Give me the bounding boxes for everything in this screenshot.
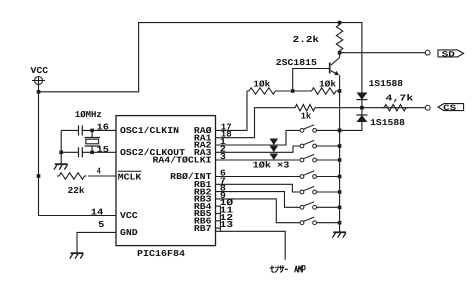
label PIC16F84 [137, 249, 186, 259]
label 1S1588 bottom [370, 118, 405, 128]
node VCC junction [37, 90, 41, 94]
pin 5 label [98, 220, 104, 230]
wire RB1 to SW5 [216, 184, 301, 192]
VCC symbol [32, 77, 45, 92]
wire D2 to bus [340, 122, 362, 130]
switch SW3 [300, 158, 304, 162]
svg-text:1Øk: 1Øk [253, 79, 271, 89]
svg-text:GND: GND [120, 228, 138, 238]
svg-text:5: 5 [98, 220, 104, 230]
wire 10kA-10kB [278, 90, 310, 92]
ground ic [70, 253, 84, 258]
resistor R3 10k [247, 88, 278, 94]
wire top to diodes [340, 23, 362, 93]
capacitor C2 [61, 147, 82, 157]
node 22k junction [37, 174, 41, 178]
wire RB2 to SW6 [216, 192, 301, 208]
switch SW4 [300, 175, 304, 179]
node OSC2-crystal [90, 151, 94, 155]
label 2SC1815 [276, 58, 317, 68]
label 10k x3 [253, 161, 290, 171]
pin 14 label [91, 207, 104, 217]
wire RA3 to SW2 [216, 146, 301, 152]
wire D1 to CS [361, 100, 363, 108]
arrow pullup RA3 [270, 146, 278, 153]
svg-text:22k: 22k [68, 186, 85, 196]
wire VCC rail top [39, 23, 340, 92]
crystal X1 10MHz [85, 130, 101, 152]
svg-text:PIC16F84: PIC16F84 [137, 249, 186, 259]
wire OSC2 [82, 151, 116, 153]
svg-text:CS: CS [443, 104, 456, 113]
terminal SD circle [425, 50, 430, 55]
svg-text:15: 15 [97, 145, 109, 155]
switch SW6 [300, 205, 304, 209]
wire OSC1 [82, 129, 116, 131]
wire RB4-RB7 ladder [216, 206, 221, 231]
label 10k B [319, 79, 337, 89]
svg-text:1k: 1k [301, 112, 312, 122]
switch SW5 [300, 190, 304, 194]
label 10MHz [75, 110, 102, 120]
resistor R5 1k [293, 105, 317, 111]
node VCC-2.2k [338, 21, 342, 25]
switch SW1 [300, 129, 304, 133]
label sensor katakana [270, 265, 288, 272]
svg-text:OSC1/CLKIN: OSC1/CLKIN [120, 126, 179, 136]
svg-text:16: 16 [97, 123, 109, 133]
resistor R4 10k [310, 88, 339, 94]
wire RB3 to SW7 [216, 199, 301, 223]
svg-text:VCC: VCC [31, 66, 49, 76]
wire RA4 to SW3 [216, 159, 301, 161]
wire RA1 to 1k [216, 108, 294, 138]
label 1k [301, 112, 312, 122]
svg-text:4: 4 [97, 167, 101, 177]
label 10k A [253, 79, 271, 89]
svg-text:2.2k: 2.2k [293, 35, 320, 45]
switch SW2 [300, 144, 304, 148]
capacitor C1 [61, 125, 82, 135]
wire 22k to MCLR [88, 175, 116, 177]
node OSC1-crystal [90, 129, 94, 133]
node bus top [338, 129, 342, 133]
label 2.2k [293, 35, 320, 45]
wire RB0 to SW4 [216, 176, 301, 178]
svg-text:MCLK: MCLK [118, 173, 142, 183]
wire switch bus [338, 129, 342, 233]
pin numbers right [220, 122, 234, 230]
svg-text:1S1588: 1S1588 [369, 79, 403, 89]
IC U1 PIC16F84 box [116, 116, 216, 246]
wire SD line [340, 52, 426, 54]
label AMP [295, 266, 305, 273]
tag SD [438, 50, 464, 59]
VCC label [31, 66, 49, 76]
label 4.7k [386, 94, 415, 104]
svg-text:RB7: RB7 [194, 224, 212, 234]
resistor R6 4.7k [382, 105, 408, 111]
wire to sensor amp [216, 231, 285, 259]
svg-text:1Øk: 1Øk [319, 79, 337, 89]
svg-text:RA4/TØCLKI: RA4/TØCLKI [153, 156, 212, 166]
svg-text:4,7k: 4,7k [386, 94, 415, 104]
ground osc [54, 164, 68, 169]
wire CS line [317, 107, 425, 109]
diode D2 1S1588 [356, 115, 367, 122]
switch SW7 [300, 221, 304, 225]
svg-text:14: 14 [91, 207, 104, 217]
wire caps to ground [60, 130, 62, 164]
svg-text:13: 13 [220, 220, 234, 230]
wire base [293, 69, 330, 92]
transistor Q1 2SC1815 [330, 53, 340, 91]
wire CS to D2 [361, 108, 363, 115]
diode D1 1S1588 [356, 93, 367, 100]
wire VCC rail left [39, 92, 117, 216]
arrow pullup RA4 [270, 154, 278, 161]
wire RA2 to SW1 [216, 130, 301, 145]
pin 16 label [97, 123, 109, 133]
wire RA0 to 10k [216, 91, 248, 130]
pin 15 label [97, 145, 109, 155]
arrow pullup RA2 [270, 139, 278, 146]
node CS diode junction [360, 106, 364, 110]
resistor R2 2.2k [336, 23, 342, 53]
svg-text:VCC: VCC [120, 211, 138, 221]
pin 4 label [97, 167, 101, 177]
svg-text:2SC1815: 2SC1815 [276, 58, 317, 68]
wire GND pin [77, 232, 116, 253]
node base junction [291, 89, 295, 93]
tag CS [438, 104, 464, 113]
node emitter junction [338, 89, 342, 93]
resistor R1 22k [57, 173, 87, 179]
label 22k [68, 186, 85, 196]
IC U1 pin names [118, 126, 212, 238]
svg-text:1ØMHz: 1ØMHz [75, 110, 102, 120]
label 1S1588 top [369, 79, 403, 89]
wire emitter down [339, 91, 341, 130]
node cap ground junction [59, 151, 63, 155]
svg-text:SD: SD [442, 50, 455, 59]
node collector [338, 51, 342, 55]
svg-text:1S1588: 1S1588 [370, 118, 405, 128]
terminal CS circle [425, 105, 430, 110]
svg-text:1Øk ×3: 1Øk ×3 [253, 161, 290, 171]
ground bus [332, 232, 346, 237]
switch block [300, 125, 340, 225]
